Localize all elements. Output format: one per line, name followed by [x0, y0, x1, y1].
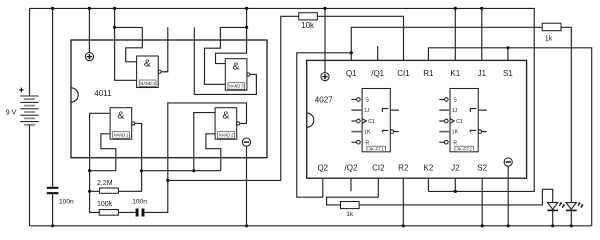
wire CI2 to 1k bottom	[327, 178, 379, 205]
svg-text:100k: 100k	[97, 201, 113, 208]
wire Q1 net to 1k	[351, 27, 543, 60]
JK-FF1 pin R	[351, 141, 356, 143]
LED D1 light arrows	[559, 202, 565, 208]
wire from rail to 4027 plus	[324, 8, 326, 72]
svg-text:S1: S1	[503, 69, 513, 78]
wire J1 from rail	[481, 8, 483, 60]
wire NAND3 input 2	[205, 27, 247, 84]
capacitor C1 100n wires	[52, 8, 54, 225]
junction LED D2 on ground rail	[570, 224, 573, 227]
svg-text:S: S	[453, 98, 457, 104]
svg-text:1J: 1J	[364, 108, 370, 114]
junction 4027 plus on supply rail	[323, 7, 326, 10]
wire 1k right to LED D2	[561, 27, 571, 202]
wire S1 pin	[507, 48, 509, 61]
JK-FF2 pin 1J	[439, 109, 450, 111]
NAND 2 gate box	[215, 108, 237, 140]
resistor 100k	[99, 210, 118, 216]
wire from rail to NAND3 junction	[246, 8, 248, 27]
svg-text:&: &	[144, 58, 151, 70]
IC U1 notch	[71, 88, 78, 102]
battery plus label	[19, 88, 24, 93]
svg-text:JK-FF2: JK-FF2	[456, 147, 472, 152]
junction NAND2 output / 10k	[166, 179, 169, 182]
wire 100k right to cap C2	[118, 211, 135, 213]
svg-text:&: &	[222, 109, 229, 121]
wire NAND4 output stub up	[161, 27, 168, 71]
svg-text:100n: 100n	[59, 199, 74, 206]
junction 2.2M left / 100k	[88, 190, 91, 193]
NAND 3 name label	[228, 83, 245, 90]
svg-text:Q1: Q1	[346, 69, 357, 78]
wire NAND3 output loop stub up	[194, 27, 256, 94]
wire J2 pin	[454, 178, 456, 191]
svg-text:S2: S2	[477, 164, 487, 173]
NAND 2 output bubble	[237, 122, 240, 125]
wire 10k left to NAND2 output net	[168, 16, 299, 180]
svg-text:/Q1: /Q1	[371, 69, 384, 78]
JK-FF1 /Q output hook bubble stub	[382, 130, 388, 132]
wire NAND1 input 1 down	[90, 113, 111, 212]
svg-text:Q2: Q2	[317, 164, 328, 173]
JK-FF1 name label	[367, 146, 386, 152]
junction S1 on R1 net	[506, 46, 509, 49]
junction S2 on ground rail	[481, 224, 484, 227]
power terminal minus of 4011	[242, 138, 250, 146]
NAND 4 output bubble	[158, 70, 161, 73]
svg-text:1k: 1k	[545, 36, 553, 43]
junction C1 bottom on ground rail	[51, 224, 54, 227]
NAND 1 name label	[113, 132, 130, 139]
wire top supply rail from battery + down right side to K2/J2	[30, 8, 535, 191]
capacitor C1 100n plates	[47, 188, 59, 193]
JK-FF2 pin 1K	[439, 131, 450, 133]
junction J1 on supply rail	[480, 7, 483, 10]
junction NAND4 input on supply rail	[113, 7, 116, 10]
svg-text:C1: C1	[368, 119, 375, 125]
svg-text:/Q2: /Q2	[345, 164, 358, 173]
svg-text:NAND 1: NAND 1	[114, 133, 129, 138]
JK-FF1 Q output hook and stub	[382, 109, 388, 112]
JK-FF2 pin S	[439, 99, 444, 101]
svg-text:NAND 2: NAND 2	[219, 133, 234, 138]
wire 10k right to CI1	[317, 16, 403, 60]
junction NAND2 input net B	[192, 169, 195, 172]
svg-text:1J: 1J	[452, 108, 458, 114]
svg-text:C1: C1	[456, 119, 463, 125]
junction LED D1 on ground rail	[551, 224, 554, 227]
svg-text:NAND 4: NAND 4	[140, 81, 155, 86]
junction node A NAND1 inputs	[88, 169, 91, 172]
JK-FF2 pin C1	[439, 120, 444, 122]
wire NAND1 input 2 jog	[90, 134, 116, 171]
svg-text:R2: R2	[398, 164, 409, 173]
wire NAND4 input 2 from rail	[115, 8, 137, 80]
wire /Q1 stub	[377, 46, 379, 60]
battery V1 bottom wire	[29, 125, 31, 226]
svg-text:1k: 1k	[346, 211, 354, 218]
power terminal plus of 4011	[85, 53, 93, 61]
svg-text:J1: J1	[478, 69, 487, 78]
power terminal minus of 4027	[504, 158, 512, 166]
wire from top rail to 4011 plus	[88, 8, 90, 52]
JK-FF2 pin R	[439, 141, 444, 143]
battery V1 plates	[20, 96, 38, 125]
wire R2 to ground	[402, 178, 404, 226]
wire NAND3 input 1	[216, 27, 247, 63]
resistor R 10k	[299, 13, 318, 20]
flip-flop JK-FF2 box	[450, 89, 478, 152]
svg-text:CI2: CI2	[372, 164, 385, 173]
IC U2 notch	[307, 113, 314, 127]
JK-FF2 Q output hook and stub	[470, 109, 476, 112]
svg-text:100n: 100n	[132, 199, 147, 206]
wire 4027 minus to ground	[507, 166, 509, 226]
wire from 4011 minus to ground rail	[246, 146, 248, 226]
power terminal plus of 4027	[321, 73, 329, 81]
LED D2 light arrows	[578, 202, 584, 208]
wire K2 pin	[427, 178, 429, 191]
NAND 1 gate box	[110, 108, 132, 140]
NAND 2 name label	[218, 132, 235, 139]
svg-text:R: R	[453, 140, 457, 146]
JK-FF1 pin 1J	[351, 109, 362, 111]
resistor 2.2M	[100, 188, 119, 193]
flip-flop JK-FF1 box	[362, 89, 390, 152]
svg-text:K1: K1	[450, 69, 460, 78]
junction K1 on supply rail	[454, 7, 457, 10]
svg-text:10k: 10k	[301, 21, 315, 30]
resistor 1k top right	[542, 23, 561, 31]
wire 2.2M left	[90, 190, 100, 192]
svg-text:K2: K2	[424, 164, 434, 173]
junction NAND4 inputs tie	[113, 26, 116, 29]
junction R2 on ground rail	[402, 224, 405, 227]
JK-FF2 /Q output hook bubble stub	[470, 130, 476, 132]
wire 1k bottom right to LED D1	[359, 189, 553, 205]
wire net B horizontal	[142, 170, 221, 172]
svg-text:NAND 3: NAND 3	[229, 84, 244, 89]
svg-text:J2: J2	[451, 164, 460, 173]
IC U1 4011 box	[71, 40, 267, 158]
svg-text:4011: 4011	[94, 89, 112, 98]
junction 4011 plus on supply rail	[88, 7, 91, 10]
wire bottom ground rail	[30, 225, 592, 227]
svg-text:1K: 1K	[364, 130, 371, 136]
svg-text:S: S	[366, 98, 370, 104]
svg-text:JK-FF1: JK-FF1	[368, 147, 384, 152]
junction 4011 minus on ground rail	[245, 224, 248, 227]
wire R1 to right edge and ground	[428, 48, 591, 226]
NAND 4 name label	[139, 80, 156, 87]
junction NAND3 inputs tie	[245, 26, 248, 29]
NAND 1 output bubble	[132, 122, 135, 125]
wire Q1/Q2 tie	[297, 53, 352, 197]
svg-text:4027: 4027	[315, 96, 333, 105]
wire /Q2 stub	[350, 178, 352, 191]
svg-text:CI1: CI1	[397, 69, 410, 78]
NAND 3 output bubble	[247, 73, 250, 76]
capacitor C2 100n plates	[137, 209, 143, 217]
svg-text:&: &	[117, 109, 124, 121]
JK-FF1 pin S	[351, 99, 356, 101]
resistor 1k bottom	[341, 202, 360, 209]
NAND 4 gate box	[137, 56, 159, 88]
JK-FF1 pin 1K	[351, 131, 362, 133]
battery V1 top wire	[29, 8, 31, 95]
junction NAND1 output / 2.2M	[140, 169, 143, 172]
wire NAND2 input 2 jog	[206, 134, 221, 171]
svg-text:R1: R1	[423, 69, 434, 78]
junction C1 top on supply rail	[51, 7, 54, 10]
wire NAND1 output down to 2.2M	[118, 123, 141, 191]
svg-text:&: &	[233, 60, 240, 72]
svg-text:9 V: 9 V	[6, 110, 17, 117]
svg-text:R: R	[366, 140, 370, 146]
JK-FF1 pin C1	[351, 120, 356, 122]
svg-text:1K: 1K	[452, 130, 459, 136]
wire S2 to ground	[481, 178, 483, 226]
wire NAND2 output over top to cap C2	[144, 103, 246, 212]
wire K1 from rail	[454, 8, 456, 60]
junction J2 on K2 net	[454, 190, 457, 193]
NAND 3 gate box	[225, 59, 247, 90]
junction 4027 minus on ground rail	[507, 224, 510, 227]
LED D2	[566, 203, 576, 210]
wire NAND2 input 1	[194, 113, 215, 171]
JK-FF2 name label	[455, 146, 474, 152]
IC U2 4027 box	[307, 60, 527, 178]
wire NAND4 input 1 jog	[115, 27, 143, 61]
junction Q1 pin	[350, 51, 353, 54]
junction NAND3 input on supply rail	[245, 7, 248, 10]
LED D1	[547, 203, 557, 210]
svg-text:2,2M: 2,2M	[97, 180, 113, 187]
